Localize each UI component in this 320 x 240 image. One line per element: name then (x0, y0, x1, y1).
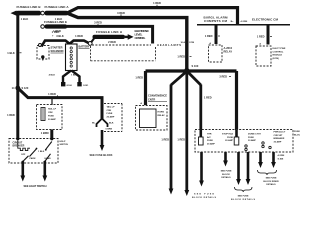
svg-text:1 RED: 1 RED (205, 34, 213, 38)
svg-text:SEE FUSE: SEE FUSE (221, 171, 232, 173)
svg-text:HDLP: HDLP (60, 141, 66, 143)
svg-text:SEE FUSE BLOCK: SEE FUSE BLOCK (90, 153, 113, 157)
svg-text:1 RED: 1 RED (7, 113, 15, 117)
svg-text:S 120: S 120 (22, 86, 29, 90)
svg-text:SWITCH: SWITCH (60, 144, 69, 146)
svg-text:1 BRN: 1 BRN (41, 131, 49, 135)
svg-text:RELAY: RELAY (224, 50, 233, 54)
svg-text:A/C: A/C (207, 136, 211, 139)
svg-text:1 BLK: 1 BLK (71, 75, 78, 77)
label 1 BLK on left vertical (7, 51, 21, 55)
wire: fork upper branch to top-right bus feed (67, 8, 238, 25)
svg-text:SEE FUSE: SEE FUSE (238, 196, 249, 198)
wire: link E to electronic level control drop (67, 26, 153, 43)
stub from cable V into battery box (69, 43, 71, 46)
svg-text:TAIL LP: TAIL LP (107, 106, 116, 109)
junction ring terminal of link E (41, 25, 45, 29)
module box 2 (dashed) (256, 46, 286, 66)
fuse box1 (tail lp fuse) dashed (37, 105, 63, 130)
svg-text:S 408: S 408 (278, 157, 284, 160)
distribution bar at S100 (146, 69, 237, 72)
svg-text:FUSE: FUSE (107, 113, 113, 115)
fuse block interior (199, 130, 286, 151)
svg-text:10 A: 10 A (180, 41, 185, 44)
svg-text:CRK: CRK (48, 112, 53, 114)
svg-text:PARK: PARK (30, 157, 36, 160)
svg-text:HORN: HORN (158, 112, 165, 114)
svg-text:FUSE: FUSE (248, 137, 254, 139)
svg-text:DOME CTSY: DOME CTSY (248, 134, 262, 136)
headlamp switch dashed box (9, 137, 58, 163)
fan diagonals from S100 (171, 72, 185, 85)
svg-text:1 RED: 1 RED (75, 34, 83, 38)
svg-text:20 AMP: 20 AMP (48, 118, 56, 121)
svg-text:25 AMP: 25 AMP (207, 143, 215, 146)
label 10 A COM on main vertical (180, 41, 194, 44)
svg-text:30 AMP: 30 AMP (248, 139, 256, 142)
svg-text:1 RED: 1 RED (177, 55, 185, 59)
svg-text:BLOCK: BLOCK (222, 174, 230, 176)
svg-text:1 RED: 1 RED (204, 96, 212, 100)
text electronic level control (135, 29, 150, 40)
svg-text:1 RED: 1 RED (53, 29, 61, 33)
svg-text:1 BLK: 1 BLK (21, 17, 29, 21)
relay box 1 (dashed) (209, 45, 233, 62)
drop wire to relay box 1 (205, 26, 220, 46)
svg-text:BLOCK DETAILS: BLOCK DETAILS (231, 198, 256, 201)
fusible link H (91, 30, 125, 44)
fuse block exit 4 (pair with brace) (258, 152, 285, 186)
svg-text:MODULE: MODULE (273, 55, 283, 57)
svg-text:FUSE: FUSE (207, 140, 213, 142)
center fuse box2 (dashed, tail lp crk fuse) (104, 104, 122, 132)
svg-text:COMPNTS CM: COMPNTS CM (204, 19, 228, 23)
svg-text:30 AMP: 30 AMP (274, 141, 282, 144)
drop to convenience center (135, 71, 145, 105)
svg-text:CRK: CRK (107, 110, 112, 112)
label HDLP SWITCH outside box (60, 141, 69, 146)
drop wire to module box 2 (257, 26, 272, 46)
far right drop from distribution bar (219, 71, 236, 130)
svg-text:CONTROL: CONTROL (135, 36, 146, 40)
label 1 RED on branch (48, 92, 57, 97)
battery ground straps (49, 71, 89, 88)
fuse block exit 3 (pair with brace) (231, 152, 256, 201)
svg-text:BLOCK: BLOCK (294, 134, 300, 136)
battery (66, 44, 90, 71)
svg-text:OFF: OFF (21, 154, 26, 156)
label 3 RED on second wire (117, 11, 125, 17)
svg-text:A-2610: A-2610 (224, 46, 233, 50)
svg-text:FUSIBLE LINK B: FUSIBLE LINK B (17, 5, 42, 9)
svg-text:(ECM): (ECM) (273, 58, 280, 60)
fuse block exit 1 (192, 152, 217, 199)
svg-text:CIRCUIT: CIRCUIT (274, 135, 284, 137)
svg-text:CNTR: CNTR (148, 97, 155, 101)
svg-text:CONVENIENCE: CONVENIENCE (148, 94, 167, 98)
svg-text:S 100: S 100 (192, 64, 199, 68)
battery positive junction ring (88, 42, 92, 46)
label 1 RED above splice S100 (177, 55, 191, 59)
svg-text:SEE FUSE: SEE FUSE (266, 178, 277, 180)
svg-text:FUSE: FUSE (227, 137, 233, 139)
left main vertical wire (1 BLK feed) (16, 13, 19, 139)
svg-text:1 RED: 1 RED (257, 35, 265, 39)
svg-text:1 BLK: 1 BLK (38, 151, 45, 153)
feed junction labels at bus (231, 20, 248, 23)
svg-text:ELECT PWR: ELECT PWR (273, 48, 286, 50)
svg-text:BLK: BLK (109, 123, 114, 125)
svg-text:20 AMP: 20 AMP (225, 139, 233, 142)
junction ring terminal between link B and link A (41, 11, 45, 15)
svg-text:G101: G101 (83, 85, 89, 87)
center fan vertical wire (177, 72, 189, 196)
svg-text:NC: NC (92, 123, 96, 125)
right fan vertical wire (201, 85, 212, 131)
svg-text:DETAILS: DETAILS (221, 176, 231, 179)
svg-text:FUSE: FUSE (294, 131, 300, 133)
fuse Y contacts below box2 (92, 119, 114, 131)
svg-text:COM: COM (189, 42, 194, 44)
svg-text:CONTROL: CONTROL (273, 51, 284, 53)
label 3 RED on ELC wire (94, 21, 102, 26)
text burgl alarm compnts cm (204, 15, 229, 23)
svg-text:BREAKER: BREAKER (274, 137, 285, 140)
fusible link A (45, 5, 70, 21)
splice S100 (184, 64, 199, 74)
svg-text:FUSIBLE LINK H: FUSIBLE LINK H (96, 30, 122, 34)
svg-text:20 AMP: 20 AMP (107, 115, 115, 118)
svg-text:4 ORN: 4 ORN (241, 20, 248, 23)
svg-text:1 RED: 1 RED (161, 138, 169, 142)
svg-text:3 RED: 3 RED (219, 75, 227, 79)
tap wire to tail lamp fuse box1 (51, 99, 53, 106)
svg-text:BATTERY: BATTERY (79, 45, 90, 49)
fusible link B (11, 5, 42, 21)
label 1 RED on top wire (153, 1, 161, 7)
svg-text:1 RED: 1 RED (135, 76, 143, 80)
svg-text:TAIL LP: TAIL LP (48, 108, 57, 111)
convenience center (136, 94, 168, 130)
svg-text:RELAY: RELAY (158, 114, 166, 117)
arrow to electronic level control (125, 34, 134, 40)
svg-text:BLOCK DETAILS: BLOCK DETAILS (192, 196, 217, 199)
headlamp switch output wires with arrows (20, 163, 47, 188)
wire: fork lower branch to splice S100 (67, 13, 187, 70)
svg-text:FUSIBLE LINK E: FUSIBLE LINK E (44, 20, 67, 24)
battery positive cable wire (42, 41, 90, 47)
svg-text:1 RED: 1 RED (177, 138, 185, 142)
dashed harness boundary around battery/ELC area (91, 45, 156, 61)
headlamp switch interior: circuit breaker + contacts (13, 141, 52, 164)
wire fuse box1 to headlamp switch (50, 130, 53, 140)
svg-text:DETAILS: DETAILS (266, 183, 276, 186)
svg-text:BLOCK RIDER: BLOCK RIDER (263, 181, 279, 183)
svg-text:SEE LIGHT SWITCH: SEE LIGHT SWITCH (24, 184, 47, 188)
svg-text:1 RED: 1 RED (48, 92, 56, 96)
svg-text:SOLENOID: SOLENOID (51, 49, 64, 53)
svg-text:STARTER: STARTER (51, 46, 63, 50)
top right bus bar (197, 24, 290, 26)
fusible link E (44, 20, 67, 34)
splice S120 on left vertical (12, 86, 29, 91)
svg-text:1 RED: 1 RED (153, 1, 161, 5)
svg-text:BREAKER: BREAKER (13, 144, 25, 147)
svg-text:5 BRN: 5 BRN (106, 129, 113, 131)
svg-text:ELECTRONIC CM: ELECTRONIC CM (252, 18, 279, 22)
wire down to fuse block with arrow (90, 130, 113, 157)
svg-text:STOP HAZ: STOP HAZ (222, 133, 234, 136)
svg-text:G100: G100 (67, 85, 73, 87)
starter solenoid dashed box (37, 44, 64, 61)
svg-text:HEADLAMPS: HEADLAMPS (157, 43, 181, 47)
svg-text:2 RED: 2 RED (108, 40, 116, 44)
svg-text:3 BLK: 3 BLK (56, 34, 64, 38)
svg-text:HTR: HTR (207, 134, 212, 136)
svg-text:FUSE: FUSE (48, 116, 54, 118)
left fan vertical wire (161, 85, 173, 195)
fuse block dashed box (195, 130, 302, 153)
svg-text:4 ORN: 4 ORN (278, 154, 285, 157)
svg-text:PWR ACCY: PWR ACCY (274, 131, 286, 134)
svg-text:4 BLK: 4 BLK (49, 74, 56, 77)
fuse block exit 2 (221, 152, 232, 179)
svg-text:1 BLK: 1 BLK (7, 51, 15, 55)
svg-text:FUSIBLE LINK A: FUSIBLE LINK A (45, 5, 70, 9)
branch wire from splice to center fuse (18, 88, 102, 119)
